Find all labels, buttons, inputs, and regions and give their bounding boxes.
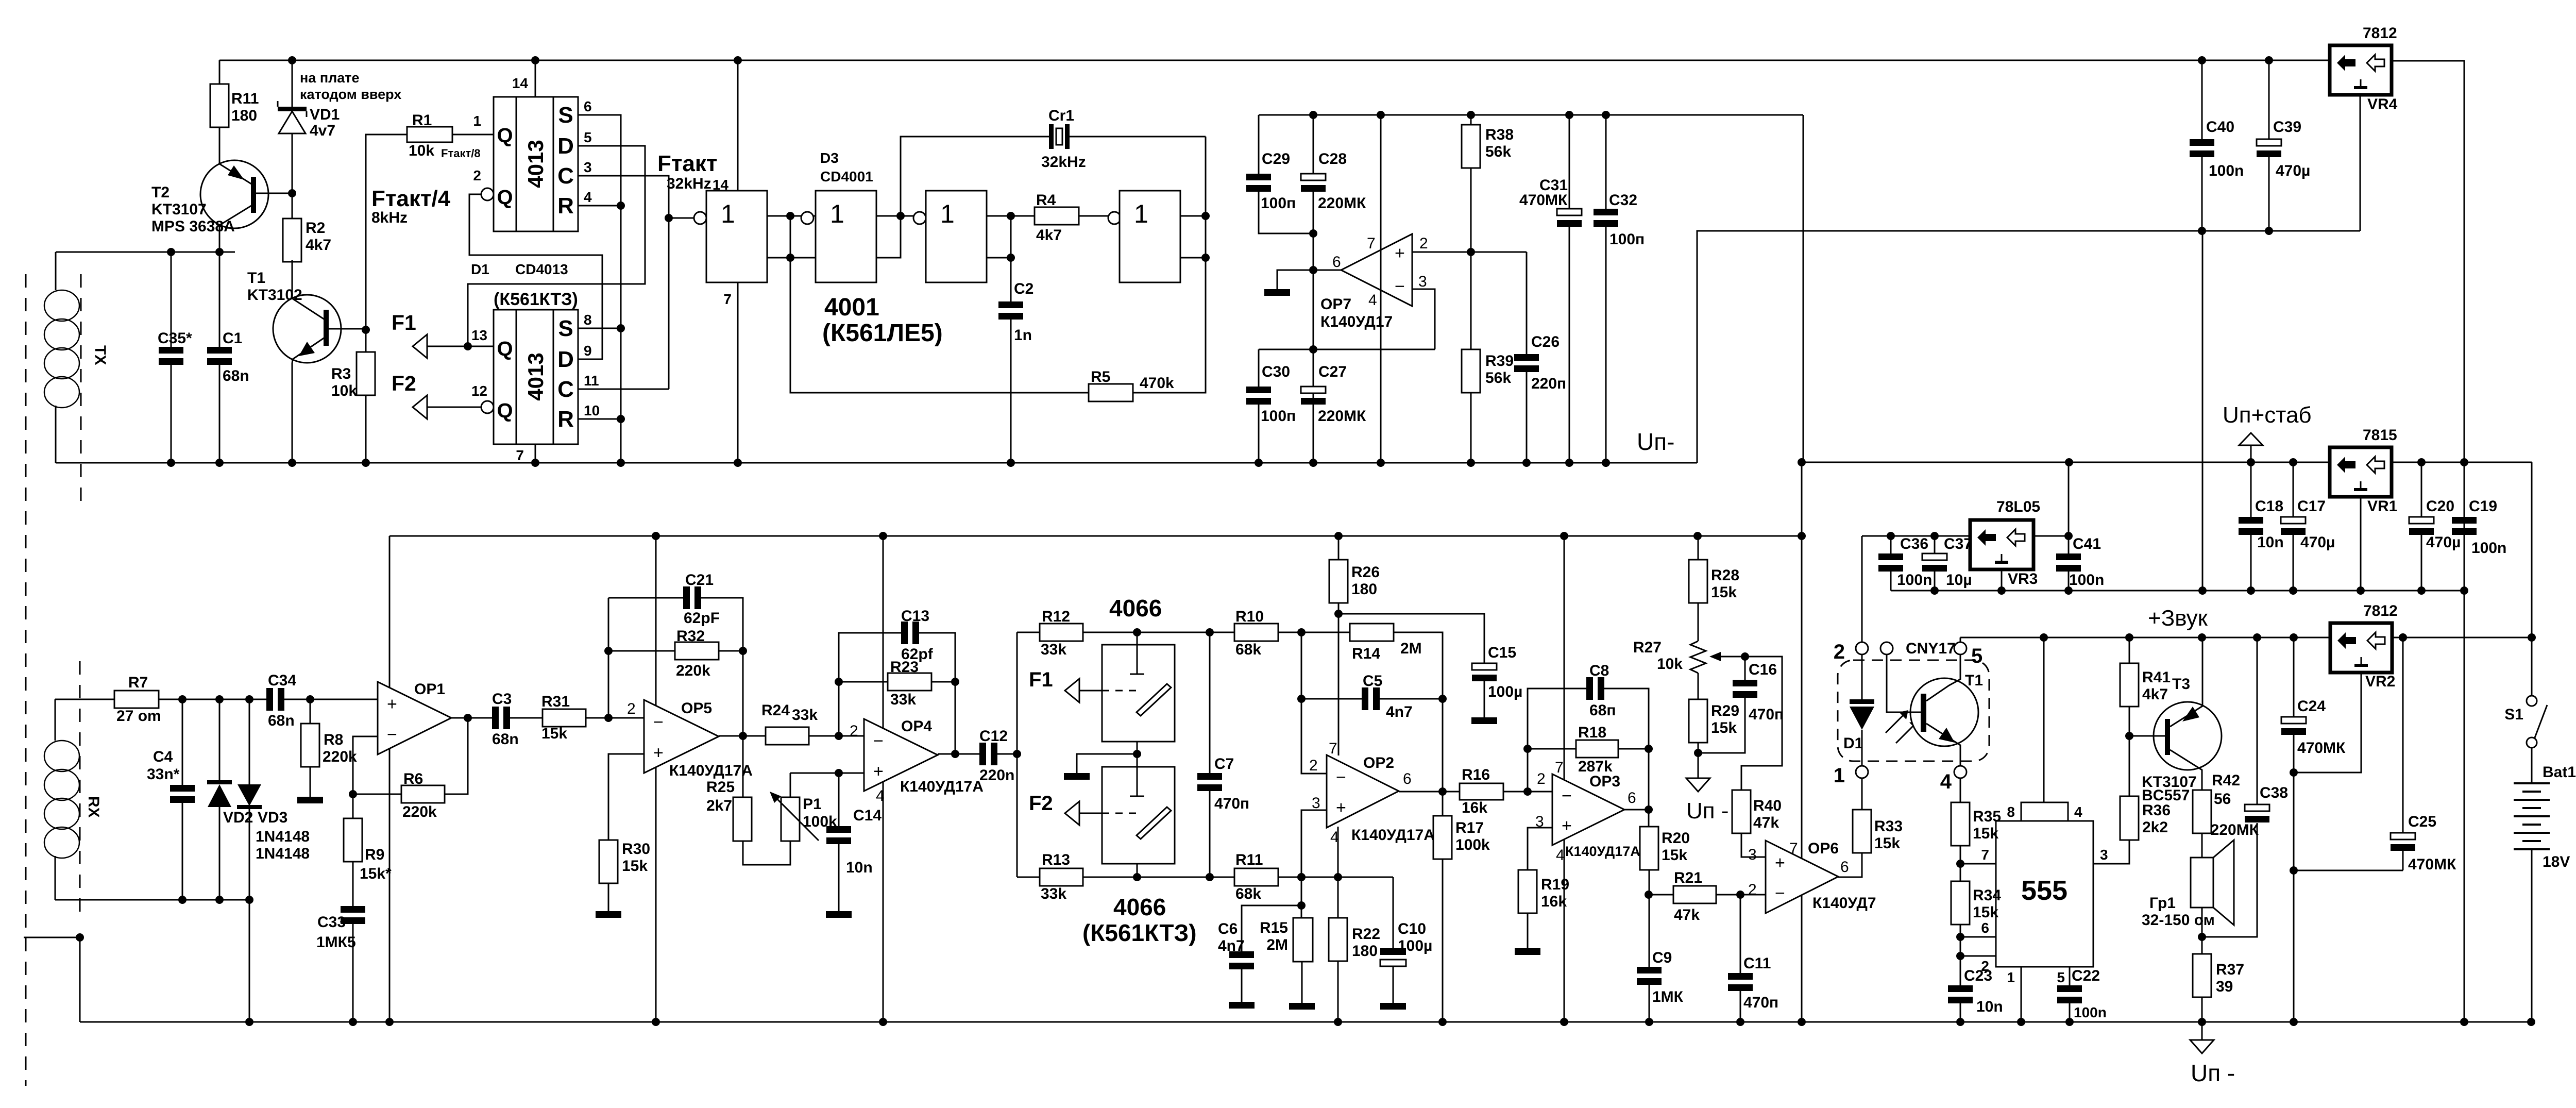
resistor R39: [1462, 349, 1480, 393]
svg-text:C30: C30: [1262, 363, 1290, 380]
svg-text:2: 2: [1419, 235, 1428, 252]
svg-text:R26: R26: [1351, 564, 1380, 581]
svg-text:R9: R9: [365, 846, 384, 863]
wire OP7 rail y223: [1259, 114, 1803, 116]
wire R1 to 4013 pin1: [452, 134, 494, 136]
svg-text:R27: R27: [1633, 639, 1662, 656]
svg-text:62pF: 62pF: [684, 610, 720, 627]
svg-text:CD4001: CD4001: [820, 169, 873, 184]
svg-text:CD4013: CD4013: [515, 261, 568, 277]
wire OP2 pin4 to R22: [1337, 827, 1339, 918]
svg-text:12: 12: [471, 383, 487, 399]
svg-text:+: +: [1562, 816, 1572, 835]
wire left TX shield dashed outer: [25, 274, 27, 1086]
wire TX top rail y489: [56, 251, 235, 253]
wire OP1 output: [451, 717, 492, 719]
resistor R21: [1649, 894, 1673, 896]
wire feedback R5 left: [790, 216, 1089, 393]
svg-text:220k: 220k: [323, 748, 357, 765]
svg-text:R: R: [557, 407, 574, 432]
resistor R1: [407, 127, 452, 142]
svg-text:6: 6: [1981, 920, 1989, 936]
svg-text:4: 4: [1940, 770, 1952, 793]
svg-text:VD2: VD2: [223, 809, 253, 826]
svg-text:68k: 68k: [1235, 641, 1261, 658]
svg-text:D: D: [557, 347, 574, 372]
resistor R11: [219, 60, 221, 84]
svg-text:на плате: на плате: [300, 70, 360, 86]
svg-text:14: 14: [512, 75, 529, 91]
svg-text:3: 3: [2100, 847, 2108, 863]
svg-text:T1: T1: [247, 270, 265, 287]
svg-text:К140УД17А: К140УД17А: [900, 778, 984, 795]
svg-text:4n7: 4n7: [1218, 937, 1245, 954]
wire VR3 rail segment: [1862, 535, 1970, 537]
pin 4 circle: [1954, 766, 1967, 778]
svg-text:100п: 100п: [1261, 408, 1296, 425]
svg-text:R12: R12: [1042, 608, 1070, 625]
pin 12 lower FF bubble: [481, 401, 494, 413]
svg-text:1: 1: [830, 199, 844, 228]
wire rail223 down right side: [1803, 115, 1804, 463]
svg-text:15k: 15k: [622, 858, 648, 875]
capacitor C15: [1472, 663, 1497, 670]
svg-text:2: 2: [850, 723, 858, 740]
svg-text:15k: 15k: [1973, 904, 1998, 921]
svg-text:C8: C8: [1589, 662, 1609, 679]
svg-text:220МК: 220МК: [1318, 408, 1366, 425]
potentiometer P1: [781, 797, 800, 841]
wire C15 branch: [1338, 614, 1484, 663]
svg-text:+: +: [873, 762, 884, 781]
diode D1 LED: [1861, 654, 1863, 702]
svg-text:VR1: VR1: [2367, 498, 2397, 515]
capacitor C24: [2293, 637, 2295, 717]
resistor R18: [1528, 748, 1576, 750]
svg-text:Fтакт/8: Fтакт/8: [441, 147, 481, 160]
555 top bracket pins 8 4: [2021, 802, 2068, 821]
svg-text:C11: C11: [1743, 955, 1771, 972]
svg-text:C1: C1: [223, 330, 242, 347]
capacitor C23: [1948, 985, 1973, 992]
svg-text:К140УД17А: К140УД17А: [669, 762, 753, 779]
svg-text:16k: 16k: [1462, 799, 1487, 816]
resistor R5: [1089, 384, 1133, 401]
svg-text:R2: R2: [306, 220, 325, 237]
coil TX: [55, 252, 57, 290]
svg-text:T1: T1: [1965, 672, 1983, 689]
svg-text:100n: 100n: [1897, 572, 1932, 589]
pin 2 upper FF bubble: [481, 188, 494, 200]
capacitor C14: [838, 773, 840, 826]
svg-text:C35*: C35*: [158, 330, 192, 347]
marker Un+stab: [2239, 433, 2263, 445]
svg-text:C24: C24: [2297, 698, 2326, 715]
wire R7 to C34 node: [159, 699, 266, 700]
svg-text:10k: 10k: [409, 142, 434, 159]
capacitor C6: [1242, 905, 1301, 951]
opto arrows: [1886, 712, 1917, 743]
svg-text:1: 1: [721, 199, 735, 228]
svg-text:4k7: 4k7: [306, 237, 331, 254]
resistor R30: [599, 840, 618, 883]
wire VR4 output right and down: [2392, 61, 2464, 1022]
capacitor C9: [1637, 967, 1662, 973]
pin 1 circle: [1856, 766, 1868, 778]
svg-text:C10: C10: [1398, 920, 1426, 937]
svg-text:C37: C37: [1944, 535, 1972, 552]
junction top rail x567: [288, 56, 296, 64]
svg-text:R34: R34: [1973, 887, 2001, 904]
555 pin3 wire: [2093, 841, 2129, 864]
svg-text:CNY17: CNY17: [1906, 640, 1956, 657]
wire VR3 out segment: [2033, 535, 2069, 537]
optocoupler D1 CNY17 dashed box: [1838, 660, 1989, 761]
svg-text:R4: R4: [1036, 192, 1056, 209]
wire OP5 plus and R30: [608, 754, 644, 840]
capacitor C3: [492, 707, 499, 729]
svg-text:R22: R22: [1352, 926, 1380, 943]
svg-text:8: 8: [584, 312, 592, 328]
wire speaker to R37: [2201, 908, 2203, 954]
svg-text:R16: R16: [1462, 766, 1490, 783]
svg-text:C6: C6: [1218, 920, 1238, 937]
wire Un- step: [1697, 231, 2360, 463]
svg-text:100п: 100п: [1609, 231, 1645, 248]
svg-text:VR2: VR2: [2365, 673, 2395, 690]
op-amp OP7 K140UD17: [1341, 234, 1412, 306]
svg-text:KT3102: KT3102: [247, 287, 302, 304]
svg-text:1МК: 1МК: [1652, 988, 1684, 1005]
svg-text:1: 1: [2007, 969, 2015, 985]
svg-text:3: 3: [1312, 795, 1320, 812]
marker Un- bottom: [2201, 1022, 2203, 1040]
svg-text:R15: R15: [1260, 919, 1288, 936]
svg-text:56: 56: [2214, 791, 2231, 808]
svg-text:C: C: [557, 377, 574, 402]
svg-text:2: 2: [1309, 757, 1318, 774]
svg-text:6: 6: [584, 98, 592, 114]
wire control to ground: [1077, 754, 1137, 773]
wire VR2 gnd to C24 node: [2290, 768, 2298, 777]
svg-text:C13: C13: [901, 608, 929, 625]
svg-text:Uп-: Uп-: [1637, 428, 1674, 455]
svg-text:KT3107: KT3107: [151, 201, 207, 218]
svg-text:OP2: OP2: [1363, 754, 1394, 771]
svg-text:100n: 100n: [2074, 1004, 2107, 1020]
capacitor C30: [1258, 349, 1260, 387]
capacitor C32: [1605, 115, 1607, 209]
resistor R15: [1293, 918, 1313, 962]
resistor R14: [1301, 632, 1350, 633]
svg-text:C38: C38: [2260, 784, 2288, 801]
wire gate D out to feedback: [1180, 215, 1206, 217]
svg-text:R3: R3: [331, 365, 351, 382]
svg-text:Uп -: Uп -: [1686, 798, 1728, 824]
regulator VR3 78L05: [1970, 520, 2033, 569]
op-amp OP3 K140UD17A: [1564, 536, 1565, 1022]
svg-text:7: 7: [1367, 235, 1376, 252]
coil RX: [55, 699, 56, 741]
capacitor C20: [2421, 462, 2422, 517]
resistor R17: [1442, 792, 1444, 816]
battery Bat1: [2531, 748, 2533, 783]
svg-text:15k: 15k: [1662, 847, 1687, 864]
svg-text:56k: 56k: [1485, 370, 1511, 387]
svg-text:2: 2: [473, 167, 481, 183]
pin 7 gate A wire: [737, 282, 739, 463]
resistor R28: [1698, 536, 1699, 560]
svg-text:3: 3: [584, 159, 592, 175]
pin 14 upper FF: [535, 60, 536, 97]
pin base circle: [1880, 642, 1893, 654]
svg-text:1: 1: [940, 199, 955, 228]
capacitor C25: [2402, 637, 2404, 833]
wire RX top to R7: [55, 699, 114, 700]
wire Q2 to D9: [469, 194, 602, 359]
svg-text:−: −: [1336, 767, 1346, 787]
wire R31 to OP5 minus: [586, 717, 644, 719]
svg-text:R31: R31: [541, 693, 570, 710]
svg-text:−: −: [387, 725, 397, 745]
capacitor C10: [1393, 877, 1394, 948]
capacitor C38: [2245, 804, 2269, 811]
svg-text:R39: R39: [1485, 352, 1514, 370]
wire OP4 output: [938, 753, 979, 755]
svg-text:Bat1: Bat1: [2543, 764, 2576, 781]
wire gate B out: [876, 215, 920, 217]
svg-text:+: +: [1395, 243, 1405, 263]
svg-text:R11: R11: [1235, 851, 1263, 868]
resistor R24: [766, 727, 809, 745]
resistor R11: [1234, 868, 1278, 886]
svg-text:4013: 4013: [523, 352, 548, 400]
svg-text:470п: 470п: [1743, 994, 1778, 1011]
capacitor C1: [219, 252, 221, 347]
svg-text:C34: C34: [268, 672, 296, 689]
capacitor C16: [1744, 657, 1746, 680]
resistor R33: [1853, 810, 1871, 853]
svg-text:4v7: 4v7: [310, 122, 335, 139]
svg-text:R33: R33: [1874, 818, 1903, 835]
wire R16 to OP3 minus: [1503, 791, 1552, 793]
svg-text:2k7: 2k7: [706, 797, 732, 814]
svg-text:C2: C2: [1014, 280, 1033, 297]
svg-text:4: 4: [584, 189, 592, 205]
svg-text:C27: C27: [1318, 363, 1347, 380]
svg-text:6: 6: [1840, 859, 1849, 876]
pin 4 wire R upper: [578, 205, 621, 207]
svg-text:47k: 47k: [1674, 906, 1700, 924]
svg-text:+: +: [1775, 853, 1785, 872]
svg-text:Q: Q: [497, 124, 513, 147]
svg-text:−: −: [1775, 884, 1785, 903]
wire R6 right to output: [445, 718, 468, 794]
resistor R37: [2193, 954, 2211, 997]
svg-text:7815: 7815: [2363, 427, 2397, 444]
pin 13 lower FF: [427, 346, 494, 347]
gate D3 inverter A: [694, 212, 706, 224]
resistor R20: [1640, 827, 1658, 870]
wire lower node y678: [1259, 349, 1435, 350]
svg-text:R5: R5: [1091, 368, 1110, 385]
svg-text:VD1: VD1: [310, 106, 340, 123]
svg-text:68n: 68n: [268, 712, 295, 729]
svg-text:16k: 16k: [1541, 893, 1567, 910]
svg-text:220МК: 220МК: [2211, 821, 2259, 838]
wire shield tap: [24, 937, 80, 1022]
svg-text:R21: R21: [1674, 869, 1702, 886]
svg-text:R11: R11: [231, 90, 259, 107]
svg-text:33k: 33k: [1041, 641, 1066, 658]
svg-text:5: 5: [1971, 645, 1982, 667]
wire OP7 -input pin3: [1412, 289, 1435, 349]
svg-text:R37: R37: [2216, 961, 2244, 978]
svg-text:7: 7: [1329, 740, 1337, 757]
svg-text:4013: 4013: [523, 140, 548, 188]
capacitor C5: [1301, 698, 1362, 700]
svg-text:+: +: [1336, 798, 1346, 818]
wire 555 pin2: [1960, 955, 1996, 957]
555 pin1 wire: [2021, 967, 2022, 1022]
capacitor C12: [979, 743, 986, 765]
svg-text:D1: D1: [471, 261, 489, 277]
wire C3 to R31: [510, 717, 543, 719]
svg-text:S: S: [558, 103, 573, 128]
resistor R29: [1698, 673, 1699, 699]
svg-text:68k: 68k: [1235, 885, 1261, 902]
resistor R34: [1951, 881, 1970, 925]
svg-text:2M: 2M: [1266, 936, 1288, 953]
svg-text:5: 5: [2057, 969, 2065, 985]
svg-text:3: 3: [1748, 846, 1757, 863]
capacitor C29: [1258, 115, 1260, 174]
wire VR3 bottom rail y1146: [1891, 590, 2464, 592]
pin 8 wire S lower: [578, 328, 621, 329]
marker Un- mid: [1686, 778, 1710, 792]
svg-text:C25: C25: [2408, 813, 2436, 830]
svg-text:C14: C14: [853, 807, 882, 824]
svg-text:56k: 56k: [1485, 143, 1511, 160]
diode VD2: [219, 699, 221, 783]
switch S1: [2531, 462, 2533, 699]
wire OP5 output: [719, 735, 766, 737]
IC D1 4013 lower flip-flop: [494, 310, 578, 444]
T3 emitter top: [2170, 637, 2202, 727]
wire OP2 plus: [1301, 810, 1327, 918]
svg-text:C16: C16: [1749, 661, 1777, 678]
resistor R13: [1017, 877, 1040, 878]
svg-text:4: 4: [876, 787, 885, 804]
svg-text:OP5: OP5: [681, 700, 712, 717]
svg-text:VR3: VR3: [2008, 570, 2038, 587]
svg-text:7812: 7812: [2363, 25, 2397, 42]
pin 10 wire R lower: [578, 418, 621, 420]
switch 4066 upper F1: [1102, 645, 1175, 742]
svg-text:R30: R30: [622, 841, 650, 858]
wire OP7 output to ground bar: [1277, 270, 1341, 289]
svg-text:2: 2: [1834, 641, 1845, 663]
svg-text:3: 3: [1418, 273, 1427, 290]
capacitor C35: [171, 252, 172, 347]
capacitor C7: [1209, 632, 1211, 773]
svg-text:C29: C29: [1262, 150, 1290, 167]
svg-text:OP4: OP4: [901, 718, 932, 735]
capacitor C40: [2201, 60, 2203, 139]
wire gates lower tie: [767, 257, 816, 259]
pin 6 wire S upper: [578, 115, 621, 463]
wire RX shield dashed inner: [79, 661, 81, 915]
svg-text:R19: R19: [1541, 876, 1569, 893]
marker F1 output: [413, 334, 427, 358]
svg-text:Q: Q: [497, 186, 513, 209]
wire R6 left node: [353, 794, 401, 795]
wire VR2 out: [2399, 633, 2407, 642]
svg-text:T3: T3: [2172, 676, 2190, 693]
svg-text:D: D: [557, 133, 574, 159]
svg-text:R1: R1: [412, 112, 432, 129]
svg-text:Uп -: Uп -: [2191, 1060, 2235, 1086]
svg-text:4n7: 4n7: [1386, 703, 1413, 720]
wire OP2 minus: [1301, 632, 1327, 774]
speaker Gr1: [2191, 858, 2213, 908]
svg-text:220п: 220п: [1531, 375, 1566, 392]
svg-text:R41: R41: [2142, 669, 2171, 686]
gate D3 inverter C: [913, 212, 926, 224]
wire OP2 output: [1399, 791, 1460, 793]
wire base node up to R1: [366, 135, 407, 330]
resistor R8: [310, 699, 311, 724]
svg-text:−: −: [873, 731, 884, 751]
svg-text:15k: 15k: [1973, 825, 1998, 842]
wire Un+stab rail y897: [1802, 462, 2532, 463]
svg-text:R40: R40: [1753, 797, 1782, 814]
capacitor C34: [266, 688, 273, 711]
gate D3 inverter B: [801, 212, 814, 224]
svg-text:32kHz: 32kHz: [667, 175, 711, 192]
svg-text:220k: 220k: [402, 803, 437, 820]
svg-text:180: 180: [1352, 943, 1378, 960]
svg-text:1n: 1n: [1014, 327, 1032, 344]
capacitor C22: [2057, 985, 2082, 992]
svg-text:OP7: OP7: [1320, 296, 1351, 313]
svg-text:OP1: OP1: [414, 681, 445, 698]
wire T1 base to F node: [329, 329, 366, 330]
svg-text:R23: R23: [890, 659, 919, 676]
svg-text:C28: C28: [1318, 150, 1347, 167]
capacitor C27: [1301, 387, 1326, 393]
svg-text:15k: 15k: [1711, 719, 1737, 736]
svg-text:C21: C21: [685, 572, 714, 589]
wire opamp top rail y1040: [389, 535, 1802, 537]
svg-text:F1: F1: [392, 311, 416, 334]
wire gate D lower out: [1180, 257, 1206, 259]
svg-text:15k: 15k: [541, 725, 567, 742]
svg-text:OP3: OP3: [1589, 773, 1620, 790]
svg-text:C15: C15: [1488, 644, 1516, 661]
capacitor C41: [2068, 462, 2070, 553]
svg-text:C22: C22: [2072, 967, 2100, 984]
transistor T2 KT3107: [200, 160, 268, 228]
svg-text:6: 6: [1332, 254, 1341, 271]
capacitor C26: [1526, 252, 1528, 354]
svg-text:4: 4: [2074, 804, 2082, 820]
wire VR3 down to opto pin2: [1861, 536, 1863, 642]
svg-text:C9: C9: [1652, 949, 1672, 966]
svg-text:Гр1: Гр1: [2149, 895, 2176, 912]
svg-text:8: 8: [2007, 804, 2015, 820]
svg-text:100µ: 100µ: [1398, 937, 1432, 954]
